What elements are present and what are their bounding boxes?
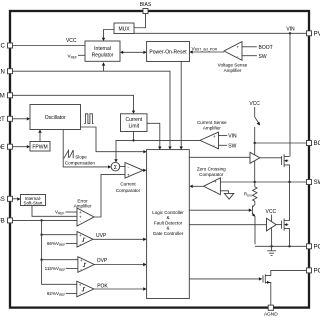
svg-text:VBST_det_POR: VBST_det_POR (192, 46, 218, 52)
wire FB to error amplifier (12, 219, 77, 221)
pin PGND (307, 244, 320, 251)
svg-text:Logic Controller: Logic Controller (152, 210, 184, 215)
svg-text:Current Sense: Current Sense (197, 120, 227, 125)
pin RT (0, 116, 13, 123)
wire SW input stub of Current Sense Amplifier (219, 143, 237, 149)
net label VREF (68, 54, 78, 60)
svg-text:PGOOD: PGOOD (314, 269, 320, 275)
net label VREF at error amplifier (55, 210, 65, 216)
wire EN branch up to Internal Regulator (102, 62, 105, 71)
wire Current Limit output to logic controller (147, 123, 162, 149)
Internal Soft-Start block (21, 195, 46, 206)
pin VCC (0, 43, 13, 50)
label Slope Compensation (65, 155, 96, 166)
svg-text:POK: POK (97, 283, 108, 289)
ground symbol at zero crossing comparator (224, 193, 233, 199)
wire error amplifier output to current comparator (94, 174, 125, 217)
svg-text:SW: SW (228, 143, 236, 149)
svg-text:Limit: Limit (129, 124, 140, 130)
svg-text:VIN: VIN (228, 134, 237, 140)
svg-text:Compensation: Compensation (65, 161, 96, 166)
wire BIAS to MUX (134, 14, 146, 28)
wire MUX output to Internal Regulator (102, 30, 114, 42)
label Voltage Sense Amplifier (218, 63, 248, 73)
wire Internal Regulator to Power-On-Reset (double arrow) (120, 51, 147, 54)
pin AGND (264, 305, 278, 317)
wire OVP output to logic controller (94, 258, 146, 266)
svg-text:SW: SW (314, 180, 320, 186)
svg-text:FB: FB (0, 219, 5, 225)
label Error Amplifier (74, 198, 92, 208)
pin BOOT (307, 141, 320, 148)
wire ILIM to Current Limit (12, 95, 135, 114)
wire SW line to SW pin (220, 181, 307, 183)
label Current Sense Amplifier (197, 120, 227, 130)
svg-text:Slope: Slope (75, 155, 87, 160)
svg-text:SS: SS (0, 197, 5, 203)
error amplifier U6 (77, 208, 94, 226)
wire Voltage Sense Amplifier output to Power-On-Reset (190, 50, 225, 53)
wire soft-start to error amplifier (32, 206, 77, 217)
wire low-side gate (276, 224, 281, 226)
svg-text:OVP: OVP (97, 258, 108, 264)
wire FB sense chain to protection comparators (40, 220, 78, 284)
Voltage Sense Amplifier U4 (224, 42, 242, 61)
svg-text:MUX: MUX (118, 27, 130, 33)
wire POK output to logic controller (94, 283, 147, 290)
label Zero Crossing Comparator (197, 167, 226, 177)
svg-text:PGND: PGND (314, 244, 320, 250)
net label VCC at bootstrap switch (249, 101, 260, 107)
svg-text:&: & (166, 226, 169, 231)
svg-text:Comparator: Comparator (199, 172, 224, 177)
FPWM block (30, 142, 50, 152)
wire 92% VREF threshold to POK (66, 292, 77, 294)
svg-text:BOOT: BOOT (314, 141, 320, 147)
svg-text:Amplifier: Amplifier (74, 204, 92, 209)
resistor RDIS (253, 182, 257, 203)
bootstrap switch from VCC to BOOT (255, 107, 261, 143)
svg-text:Current: Current (125, 117, 142, 123)
svg-text:BOOT: BOOT (259, 45, 273, 51)
wire MODE to FPWM (12, 145, 30, 148)
svg-text:Gate Controller: Gate Controller (153, 231, 184, 236)
OVP comparator U8 (78, 257, 94, 273)
wire zero crossing output to logic controller (190, 185, 204, 188)
wire BOOT line to BOOT pin (254, 142, 308, 144)
svg-text:SW: SW (259, 54, 267, 60)
svg-text:UVP: UVP (96, 233, 107, 239)
Logic Controller block (147, 150, 190, 299)
svg-text:+: + (79, 233, 82, 238)
wire POR output to logic controller (180, 62, 183, 150)
net label 115%VREF (45, 266, 66, 272)
svg-text:RDIS: RDIS (244, 192, 252, 198)
UVP comparator U7 (77, 232, 93, 248)
svg-text:BIAS: BIAS (140, 2, 152, 8)
wire VIN input stub of Current Sense Amplifier (219, 134, 238, 140)
wire summer to current comparator (120, 165, 125, 167)
MUX block (114, 23, 134, 34)
wire high-side driver input from logic controller (189, 156, 250, 158)
wire zero crossing negative input to analog ground (220, 191, 228, 194)
svg-text:Oscillator: Oscillator (45, 115, 66, 121)
svg-text:Zero Crossing: Zero Crossing (197, 167, 226, 172)
wire 115% VREF threshold to OVP (66, 267, 78, 269)
label Current Comparator (116, 182, 141, 193)
Internal Regulator block (85, 41, 120, 61)
Power-On-Reset block (147, 42, 190, 62)
svg-text:Power-On-Reset: Power-On-Reset (149, 50, 187, 56)
svg-text:+: + (127, 173, 130, 178)
clock waveform glyph (84, 114, 93, 124)
svg-text:VCC: VCC (66, 38, 77, 44)
svg-text:Fault Detector: Fault Detector (154, 220, 183, 225)
Current Limit block (121, 114, 148, 132)
pin EN (0, 69, 13, 76)
svg-text:VIN: VIN (286, 27, 295, 33)
Oscillator block (30, 105, 81, 130)
low-side driver U3 (267, 218, 277, 231)
wire VIN down to high-side FET drain (289, 33, 291, 156)
wire discharge transistor gate from logic controller (189, 209, 252, 212)
pin ILIM (0, 93, 13, 100)
svg-text:VCC: VCC (249, 101, 260, 107)
net label VIN (286, 27, 295, 33)
wire SS pin to soft-start block (12, 197, 21, 200)
svg-text:&: & (166, 215, 169, 220)
net label VCC at low-side driver (266, 209, 277, 215)
wire RT to Oscillator (12, 117, 30, 120)
wire VCC pin to Internal Regulator (12, 45, 85, 47)
svg-text:MODE: MODE (0, 145, 5, 151)
svg-text:Internal: Internal (94, 46, 111, 52)
low-side FET Q3 (282, 182, 290, 246)
svg-text:Voltage Sense: Voltage Sense (218, 63, 248, 68)
wire Oscillator clock to logic controller (81, 127, 147, 153)
svg-text:Error: Error (77, 198, 88, 203)
wire PGOOD gate from logic controller (189, 277, 262, 280)
svg-text:Soft-Start: Soft-Start (23, 201, 43, 206)
svg-text:Amplifier: Amplifier (224, 68, 242, 73)
svg-text:RT: RT (0, 117, 5, 123)
pin SW (307, 180, 320, 187)
svg-text:EN: EN (0, 69, 5, 75)
svg-text:+: + (214, 180, 217, 185)
svg-text:+: + (79, 283, 82, 288)
svg-text:Regulator: Regulator (92, 53, 114, 59)
net label 66%VREF (47, 241, 66, 247)
wire Current Limit tap on current sense line (132, 132, 134, 142)
svg-text:PVIN: PVIN (314, 31, 320, 37)
discharge transistor Q2 (252, 203, 255, 244)
wire SW input stub of Voltage Sense Amplifier (242, 54, 267, 60)
net label VCC (66, 38, 77, 44)
svg-text:VCC: VCC (0, 44, 5, 50)
wire EN to logic controller (12, 71, 170, 148)
POK comparator U9 (77, 281, 94, 297)
wire low-side driver input from logic controller (189, 224, 266, 226)
slope compensation sawtooth glyph (64, 150, 73, 158)
wire 66% VREF threshold to UVP (66, 242, 77, 244)
arrow EN into logic controller top (168, 147, 171, 150)
power ground symbol under low-side driver (267, 246, 276, 255)
pin PGOOD (307, 268, 320, 275)
wire FPWM to Oscillator (38, 130, 41, 142)
svg-text:Comparator: Comparator (116, 188, 141, 193)
svg-text:ILIM: ILIM (0, 93, 5, 99)
wire PGOOD drain to PGOOD pin (271, 269, 307, 271)
pin MODE (0, 144, 13, 151)
Current Sense Amplifier U10 (200, 132, 219, 149)
svg-text:Amplifier: Amplifier (203, 125, 221, 130)
PGOOD open-drain FET Q4 (263, 270, 271, 304)
wire current comparator output to logic controller (143, 169, 147, 172)
wire high-side gate (260, 157, 282, 159)
svg-text:+: + (80, 258, 83, 263)
current comparator U5 (125, 163, 143, 179)
zero crossing comparator U2 (204, 178, 221, 195)
wire UVP output to logic controller (93, 233, 147, 241)
net label VBST_det_POR (192, 46, 218, 52)
svg-text:Current: Current (120, 182, 136, 187)
wire current sense signal to summer (114, 140, 200, 162)
pin FB (0, 218, 13, 225)
pin SS (0, 196, 13, 203)
wire slope compensation to summer (63, 130, 111, 169)
net label 92%VREF (47, 291, 66, 297)
summer node (111, 162, 120, 171)
wire high-side driver rail BOOT to SW (254, 143, 256, 182)
wire VREF to error amplifier (66, 211, 78, 213)
pin BIAS (140, 2, 152, 14)
svg-text:+: + (236, 44, 239, 49)
high-side FET Q1 (282, 154, 290, 182)
svg-text:AGND: AGND (264, 311, 278, 317)
wire VIN line from PVIN to MUX (134, 32, 307, 34)
svg-text:VCC: VCC (266, 209, 277, 215)
wire PGND line to PGND pin (255, 245, 307, 247)
svg-text:FPWM: FPWM (32, 145, 47, 151)
high-side driver U1 (250, 152, 260, 163)
label RDIS (244, 192, 252, 198)
svg-text:+: + (213, 134, 216, 139)
pin PVIN (307, 31, 320, 38)
wire VREF stub from Internal Regulator (78, 54, 85, 56)
wire VCC rail through low-side driver to ground (271, 215, 273, 247)
wire BOOT input stub of Voltage Sense Amplifier (242, 45, 273, 51)
